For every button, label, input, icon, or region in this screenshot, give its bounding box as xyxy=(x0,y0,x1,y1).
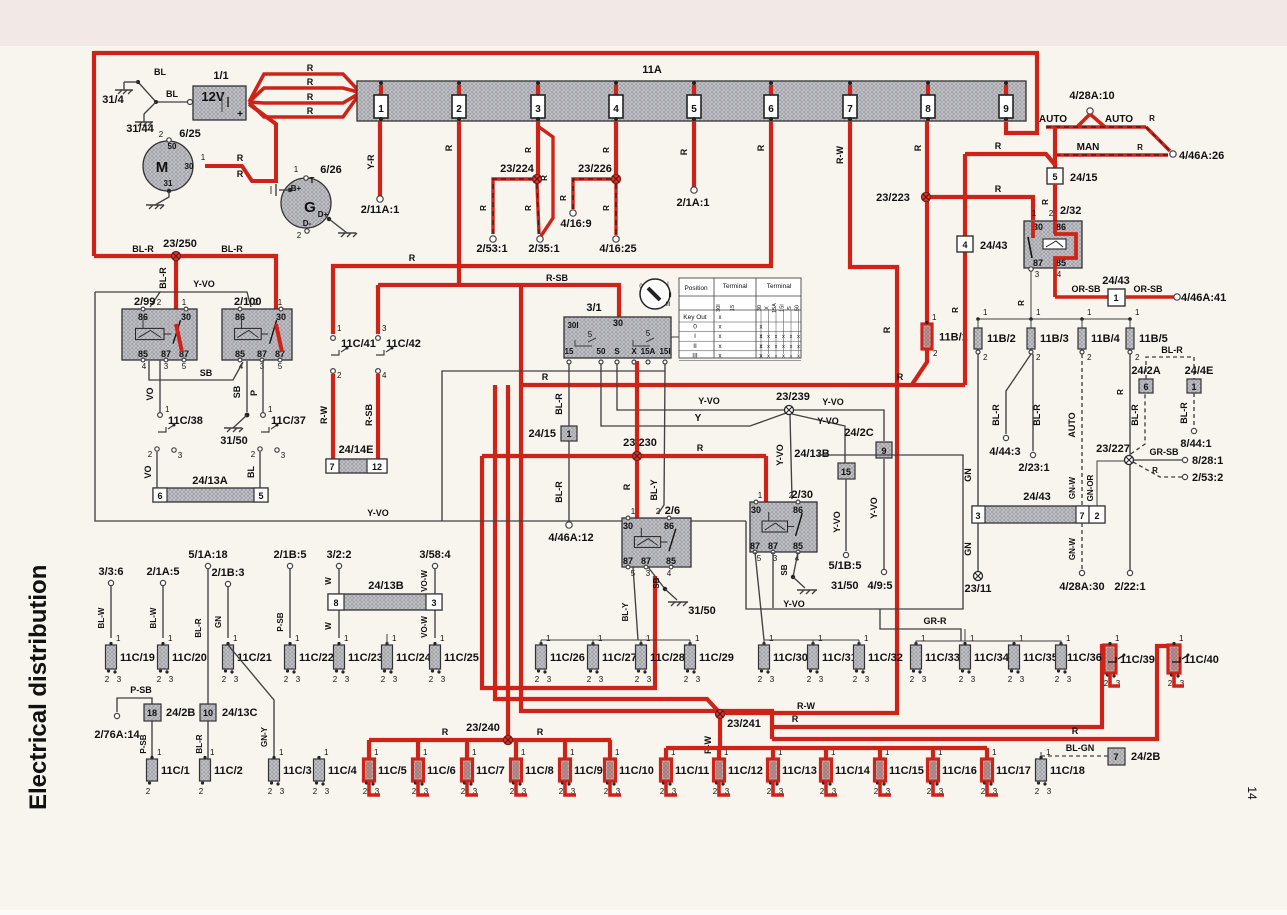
svg-text:R: R xyxy=(307,77,314,87)
svg-text:2: 2 xyxy=(1087,353,1092,362)
svg-text:11C/27: 11C/27 xyxy=(602,652,637,664)
svg-text:1: 1 xyxy=(374,748,379,757)
svg-text:x: x xyxy=(775,353,778,359)
svg-text:R-SB: R-SB xyxy=(546,273,568,283)
svg-text:24/2B: 24/2B xyxy=(166,707,195,719)
svg-text:2: 2 xyxy=(105,675,110,684)
svg-text:GN-OR: GN-OR xyxy=(1086,474,1095,501)
svg-text:S: S xyxy=(787,306,793,310)
svg-text:2: 2 xyxy=(874,787,879,796)
svg-text:2: 2 xyxy=(807,675,812,684)
svg-text:R: R xyxy=(995,184,1002,194)
svg-text:5: 5 xyxy=(258,491,263,501)
svg-text:5/1B:5: 5/1B:5 xyxy=(828,560,861,572)
svg-text:5: 5 xyxy=(646,329,651,338)
svg-text:2: 2 xyxy=(1036,353,1041,362)
svg-text:4: 4 xyxy=(142,362,147,371)
svg-text:2/30: 2/30 xyxy=(792,489,813,501)
svg-text:2: 2 xyxy=(461,787,466,796)
svg-text:3: 3 xyxy=(325,787,330,796)
svg-text:15: 15 xyxy=(841,467,851,477)
svg-text:2/53:2: 2/53:2 xyxy=(1192,472,1223,484)
svg-text:R-W: R-W xyxy=(703,736,713,754)
svg-text:24/13B: 24/13B xyxy=(368,580,404,592)
svg-text:2: 2 xyxy=(656,507,661,516)
svg-text:23/240: 23/240 xyxy=(466,722,500,734)
svg-text:R: R xyxy=(913,144,923,151)
svg-text:1/1: 1/1 xyxy=(213,70,228,82)
svg-text:4: 4 xyxy=(239,362,244,371)
svg-text:+: + xyxy=(237,109,243,120)
svg-text:1: 1 xyxy=(646,634,651,643)
svg-text:3: 3 xyxy=(382,324,387,333)
svg-text:5/1A:18: 5/1A:18 xyxy=(188,549,227,561)
svg-text:31/50: 31/50 xyxy=(688,605,716,617)
svg-text:30I: 30I xyxy=(567,321,578,330)
svg-text:R: R xyxy=(444,144,454,151)
svg-text:11C/26: 11C/26 xyxy=(550,652,585,664)
svg-text:R: R xyxy=(1017,300,1026,306)
svg-text:D+: D+ xyxy=(318,210,329,219)
svg-text:R-W: R-W xyxy=(835,146,845,164)
svg-text:GN-W: GN-W xyxy=(1068,537,1077,560)
svg-text:2: 2 xyxy=(381,675,386,684)
svg-text:2: 2 xyxy=(157,298,162,307)
svg-text:R: R xyxy=(792,714,799,724)
svg-text:24/2B: 24/2B xyxy=(1131,751,1160,763)
svg-text:0: 0 xyxy=(693,324,697,331)
svg-text:7: 7 xyxy=(847,104,853,115)
svg-text:3: 3 xyxy=(1047,787,1052,796)
svg-text:87: 87 xyxy=(641,556,651,566)
svg-text:11C/24: 11C/24 xyxy=(396,652,432,664)
svg-text:23/11: 23/11 xyxy=(965,583,992,595)
svg-text:3: 3 xyxy=(1067,675,1072,684)
svg-text:x: x xyxy=(782,353,785,359)
svg-text:6: 6 xyxy=(157,491,162,501)
svg-text:GN-W: GN-W xyxy=(1068,476,1077,499)
svg-text:1: 1 xyxy=(440,634,445,643)
svg-text:1: 1 xyxy=(818,634,823,643)
svg-text:R: R xyxy=(479,205,488,211)
svg-text:2/53:1: 2/53:1 xyxy=(476,243,507,255)
svg-text:1: 1 xyxy=(983,308,988,317)
svg-text:15I: 15I xyxy=(780,304,786,312)
svg-text:R: R xyxy=(602,205,611,211)
svg-text:1: 1 xyxy=(157,748,162,757)
svg-text:3: 3 xyxy=(1020,675,1025,684)
svg-text:23/250: 23/250 xyxy=(163,238,197,250)
svg-text:x: x xyxy=(767,353,770,359)
svg-text:3: 3 xyxy=(169,675,174,684)
svg-text:BL: BL xyxy=(166,89,178,99)
svg-text:SB: SB xyxy=(780,564,789,575)
svg-text:2: 2 xyxy=(1094,511,1099,521)
svg-text:3: 3 xyxy=(865,675,870,684)
svg-text:2: 2 xyxy=(820,787,825,796)
svg-text:x: x xyxy=(719,353,722,359)
svg-text:2/1B:3: 2/1B:3 xyxy=(211,567,244,579)
svg-text:BL-R: BL-R xyxy=(195,734,204,753)
svg-text:85: 85 xyxy=(666,556,676,566)
svg-text:1: 1 xyxy=(1191,382,1196,392)
svg-text:D-: D- xyxy=(303,219,312,228)
svg-text:OR-SB: OR-SB xyxy=(1072,284,1102,294)
svg-text:2: 2 xyxy=(1049,209,1054,218)
svg-text:4/46A:12: 4/46A:12 xyxy=(548,532,593,544)
svg-text:BL-Y: BL-Y xyxy=(649,480,659,501)
svg-text:R: R xyxy=(697,443,704,453)
svg-text:15I: 15I xyxy=(659,347,670,356)
svg-text:11B/5: 11B/5 xyxy=(1139,333,1168,345)
svg-text:1: 1 xyxy=(279,748,284,757)
svg-text:7: 7 xyxy=(1113,752,1118,762)
svg-text:R: R xyxy=(1149,114,1155,123)
svg-text:R: R xyxy=(559,195,568,201)
svg-text:11C/25: 11C/25 xyxy=(444,652,479,664)
svg-text:3: 3 xyxy=(345,675,350,684)
svg-text:3: 3 xyxy=(770,675,775,684)
svg-text:Key Out: Key Out xyxy=(683,314,707,321)
svg-text:30: 30 xyxy=(276,312,286,322)
svg-text:W: W xyxy=(324,622,333,630)
svg-text:3: 3 xyxy=(280,787,285,796)
svg-text:24/15: 24/15 xyxy=(1070,172,1098,184)
svg-text:x: x xyxy=(790,353,793,359)
svg-text:1: 1 xyxy=(201,153,206,162)
svg-text:Terminal: Terminal xyxy=(723,283,748,290)
svg-text:9: 9 xyxy=(1003,104,1009,115)
svg-text:VO-W: VO-W xyxy=(420,616,429,638)
svg-text:X: X xyxy=(765,306,771,310)
svg-text:P-SB: P-SB xyxy=(276,612,285,631)
svg-text:2: 2 xyxy=(251,450,256,459)
svg-text:50: 50 xyxy=(795,305,801,311)
svg-text:R: R xyxy=(1152,466,1158,475)
svg-text:11A: 11A xyxy=(642,64,662,76)
svg-text:SB: SB xyxy=(200,368,213,378)
svg-text:6: 6 xyxy=(768,104,774,115)
svg-text:BL-W: BL-W xyxy=(97,607,106,628)
svg-text:24/14E: 24/14E xyxy=(339,444,374,456)
svg-text:8: 8 xyxy=(333,598,338,608)
svg-text:23/227: 23/227 xyxy=(1096,443,1130,455)
svg-text:1: 1 xyxy=(1135,308,1140,317)
svg-text:11C/35: 11C/35 xyxy=(1023,652,1058,664)
svg-text:1: 1 xyxy=(165,405,170,414)
svg-text:2: 2 xyxy=(363,787,368,796)
svg-text:11C/32: 11C/32 xyxy=(868,652,903,664)
svg-text:11C/36: 11C/36 xyxy=(1067,652,1102,664)
svg-text:R: R xyxy=(897,372,904,382)
svg-text:1: 1 xyxy=(295,634,300,643)
svg-text:2: 2 xyxy=(333,675,338,684)
svg-text:1: 1 xyxy=(864,634,869,643)
svg-text:AUTO: AUTO xyxy=(1105,114,1133,125)
svg-text:3/3:6: 3/3:6 xyxy=(98,566,123,578)
svg-text:3: 3 xyxy=(971,675,976,684)
svg-text:2: 2 xyxy=(268,787,273,796)
svg-text:2: 2 xyxy=(635,675,640,684)
svg-text:11B/2: 11B/2 xyxy=(987,333,1016,345)
svg-text:11C/19: 11C/19 xyxy=(120,652,155,664)
svg-text:2/1A:5: 2/1A:5 xyxy=(146,566,179,578)
svg-text:2: 2 xyxy=(910,675,915,684)
svg-text:11C/14: 11C/14 xyxy=(835,765,871,777)
svg-text:30: 30 xyxy=(181,312,191,322)
svg-text:GN: GN xyxy=(963,468,973,482)
svg-text:3: 3 xyxy=(535,104,541,115)
svg-text:3/1: 3/1 xyxy=(586,302,601,314)
svg-text:30: 30 xyxy=(185,162,194,171)
svg-text:86: 86 xyxy=(235,312,245,322)
svg-text:30: 30 xyxy=(613,318,623,328)
svg-text:2: 2 xyxy=(1135,353,1140,362)
svg-text:3: 3 xyxy=(117,675,122,684)
svg-text:2/76A:14: 2/76A:14 xyxy=(94,729,140,741)
svg-text:1: 1 xyxy=(116,634,121,643)
svg-text:3: 3 xyxy=(819,675,824,684)
svg-text:x: x xyxy=(797,353,800,359)
svg-text:4/46A:41: 4/46A:41 xyxy=(1181,292,1226,304)
svg-text:11C/29: 11C/29 xyxy=(699,652,734,664)
svg-text:SB: SB xyxy=(232,385,242,398)
svg-text:11C/6: 11C/6 xyxy=(427,765,456,777)
svg-text:2: 2 xyxy=(535,675,540,684)
svg-text:Y: Y xyxy=(695,413,702,424)
svg-text:1: 1 xyxy=(472,748,477,757)
svg-text:R: R xyxy=(542,372,549,382)
svg-text:2: 2 xyxy=(853,675,858,684)
svg-text:Y-VO: Y-VO xyxy=(367,508,389,518)
svg-text:OR-SB: OR-SB xyxy=(1134,284,1164,294)
svg-text:Y-VO: Y-VO xyxy=(832,511,842,533)
svg-text:23/241: 23/241 xyxy=(727,718,761,730)
svg-text:2: 2 xyxy=(1104,679,1109,688)
svg-text:11C/16: 11C/16 xyxy=(942,765,977,777)
svg-text:R: R xyxy=(524,147,533,153)
svg-text:31/44: 31/44 xyxy=(126,123,154,135)
svg-text:24/13C: 24/13C xyxy=(222,707,258,719)
svg-text:5: 5 xyxy=(182,362,187,371)
svg-text:3: 3 xyxy=(234,675,239,684)
svg-text:87: 87 xyxy=(768,541,778,551)
svg-text:R-W: R-W xyxy=(797,701,815,711)
svg-text:24/43: 24/43 xyxy=(1102,275,1130,287)
svg-text:3: 3 xyxy=(647,675,652,684)
svg-text:1: 1 xyxy=(423,748,428,757)
svg-text:III: III xyxy=(692,352,698,359)
svg-text:23/224: 23/224 xyxy=(500,163,535,175)
svg-text:R-W: R-W xyxy=(319,406,329,424)
svg-text:12: 12 xyxy=(372,462,382,472)
svg-text:11C/22: 11C/22 xyxy=(299,652,334,664)
svg-text:GR-SB: GR-SB xyxy=(1150,447,1180,457)
svg-text:BL-R: BL-R xyxy=(132,244,154,254)
svg-text:23/223: 23/223 xyxy=(876,192,910,204)
svg-text:30: 30 xyxy=(751,505,761,515)
svg-text:BL: BL xyxy=(154,67,166,77)
svg-text:R: R xyxy=(602,147,611,153)
svg-text:11C/12: 11C/12 xyxy=(728,765,763,777)
svg-text:3: 3 xyxy=(393,675,398,684)
svg-text:5: 5 xyxy=(757,554,762,563)
svg-text:11C/4: 11C/4 xyxy=(328,765,358,777)
svg-text:10: 10 xyxy=(203,708,213,718)
svg-text:4/28A:30: 4/28A:30 xyxy=(1059,581,1104,593)
svg-text:1: 1 xyxy=(1087,308,1092,317)
svg-text:x: x xyxy=(719,325,722,331)
svg-text:x: x xyxy=(719,315,722,321)
svg-text:R: R xyxy=(995,141,1002,151)
svg-text:1: 1 xyxy=(210,748,215,757)
svg-text:6/25: 6/25 xyxy=(179,128,200,140)
svg-text:2: 2 xyxy=(713,787,718,796)
svg-text:11C/20: 11C/20 xyxy=(172,652,207,664)
svg-text:SB: SB xyxy=(652,577,661,588)
svg-text:Y-VO: Y-VO xyxy=(783,599,805,609)
svg-text:2: 2 xyxy=(510,787,515,796)
svg-text:11C/31: 11C/31 xyxy=(822,652,857,664)
svg-text:BL-Y: BL-Y xyxy=(621,602,630,621)
svg-text:III: III xyxy=(665,302,670,308)
svg-text:Y-R: Y-R xyxy=(366,154,376,170)
svg-text:II: II xyxy=(693,343,697,350)
svg-text:2: 2 xyxy=(933,349,938,358)
svg-text:11C/34: 11C/34 xyxy=(974,652,1010,664)
svg-text:1: 1 xyxy=(615,748,620,757)
svg-text:24/4E: 24/4E xyxy=(1185,365,1214,377)
svg-text:2: 2 xyxy=(959,675,964,684)
svg-text:11C/7: 11C/7 xyxy=(476,765,505,777)
svg-text:2: 2 xyxy=(429,675,434,684)
svg-text:2/1B:5: 2/1B:5 xyxy=(273,549,306,561)
svg-text:2: 2 xyxy=(927,787,932,796)
svg-text:11C/5: 11C/5 xyxy=(378,765,407,777)
svg-text:T: T xyxy=(310,176,315,185)
svg-text:2: 2 xyxy=(1035,787,1040,796)
svg-text:R: R xyxy=(237,169,244,179)
svg-text:2: 2 xyxy=(758,675,763,684)
svg-text:3: 3 xyxy=(260,362,265,371)
svg-text:2: 2 xyxy=(222,675,227,684)
svg-text:AUTO: AUTO xyxy=(1039,114,1067,125)
svg-text:3: 3 xyxy=(922,675,927,684)
svg-text:3: 3 xyxy=(547,675,552,684)
svg-text:2: 2 xyxy=(412,787,417,796)
svg-text:1: 1 xyxy=(344,634,349,643)
svg-text:1: 1 xyxy=(1113,293,1118,303)
svg-text:24/2C: 24/2C xyxy=(844,427,873,439)
svg-text:6: 6 xyxy=(1143,382,1148,392)
svg-text:1: 1 xyxy=(546,634,551,643)
svg-text:11C/9: 11C/9 xyxy=(574,765,603,777)
svg-text:2: 2 xyxy=(1168,679,1173,688)
svg-text:2/32: 2/32 xyxy=(1060,205,1081,217)
svg-text:Y-VO: Y-VO xyxy=(817,416,839,426)
svg-text:1: 1 xyxy=(769,634,774,643)
svg-text:15A: 15A xyxy=(641,347,656,356)
svg-text:11C/10: 11C/10 xyxy=(619,765,654,777)
svg-text:5: 5 xyxy=(278,362,283,371)
svg-text:2: 2 xyxy=(148,450,153,459)
svg-text:4: 4 xyxy=(962,240,967,250)
svg-text:R: R xyxy=(622,483,632,490)
svg-text:2/6: 2/6 xyxy=(665,505,680,517)
svg-text:1: 1 xyxy=(1036,308,1041,317)
svg-text:87: 87 xyxy=(623,556,633,566)
svg-text:4: 4 xyxy=(1057,270,1062,279)
svg-text:31/4: 31/4 xyxy=(102,94,124,106)
svg-text:R: R xyxy=(537,727,544,737)
svg-text:II: II xyxy=(668,293,672,299)
svg-text:11C/28: 11C/28 xyxy=(650,652,685,664)
svg-text:R: R xyxy=(1137,143,1143,152)
svg-text:VO-W: VO-W xyxy=(420,570,429,592)
svg-text:30I: 30I xyxy=(716,304,722,312)
svg-text:BL-R: BL-R xyxy=(158,267,168,289)
svg-text:x: x xyxy=(719,334,722,340)
svg-text:1: 1 xyxy=(182,298,187,307)
svg-text:50: 50 xyxy=(168,142,177,151)
svg-text:1: 1 xyxy=(294,165,299,174)
svg-text:11C/8: 11C/8 xyxy=(525,765,554,777)
svg-text:R: R xyxy=(756,144,766,151)
svg-text:30: 30 xyxy=(623,521,633,531)
svg-text:R: R xyxy=(307,63,314,73)
svg-text:x: x xyxy=(719,344,722,350)
svg-text:2: 2 xyxy=(587,675,592,684)
svg-text:BL: BL xyxy=(246,466,256,478)
svg-text:85: 85 xyxy=(793,541,803,551)
svg-text:W: W xyxy=(324,577,333,585)
svg-text:23/239: 23/239 xyxy=(776,391,810,403)
svg-text:85: 85 xyxy=(138,349,148,359)
svg-text:2/99: 2/99 xyxy=(134,296,155,308)
svg-text:24/43: 24/43 xyxy=(980,240,1008,252)
svg-text:2: 2 xyxy=(254,298,259,307)
svg-text:1: 1 xyxy=(1019,634,1024,643)
svg-text:MAN: MAN xyxy=(1077,142,1100,153)
svg-text:11C/15: 11C/15 xyxy=(889,765,924,777)
svg-text:Terminal: Terminal xyxy=(767,283,792,290)
svg-text:24/43: 24/43 xyxy=(1023,491,1051,503)
svg-text:4: 4 xyxy=(667,569,672,578)
svg-text:Position: Position xyxy=(684,285,708,292)
svg-text:BL-R: BL-R xyxy=(1032,404,1042,426)
svg-text:11C/2: 11C/2 xyxy=(214,765,243,777)
svg-text:4/28A:10: 4/28A:10 xyxy=(1069,90,1114,102)
svg-text:2/11A:1: 2/11A:1 xyxy=(361,204,400,216)
svg-text:R: R xyxy=(1116,389,1125,395)
svg-text:R: R xyxy=(1041,199,1050,205)
svg-text:1: 1 xyxy=(378,104,384,115)
svg-text:1: 1 xyxy=(1115,634,1120,643)
svg-text:24/13B: 24/13B xyxy=(794,448,830,460)
svg-text:24/13A: 24/13A xyxy=(192,475,228,487)
svg-text:2: 2 xyxy=(337,371,342,380)
svg-text:23/230: 23/230 xyxy=(623,437,657,449)
svg-text:14: 14 xyxy=(1245,786,1259,800)
svg-text:x: x xyxy=(760,353,763,359)
svg-text:2: 2 xyxy=(684,675,689,684)
svg-text:11C/33: 11C/33 xyxy=(925,652,960,664)
svg-text:24/15: 24/15 xyxy=(528,428,556,440)
svg-text:R: R xyxy=(524,205,533,211)
svg-text:BL-R: BL-R xyxy=(221,244,243,254)
svg-text:5: 5 xyxy=(691,104,697,115)
svg-text:BL-R: BL-R xyxy=(1179,402,1189,424)
